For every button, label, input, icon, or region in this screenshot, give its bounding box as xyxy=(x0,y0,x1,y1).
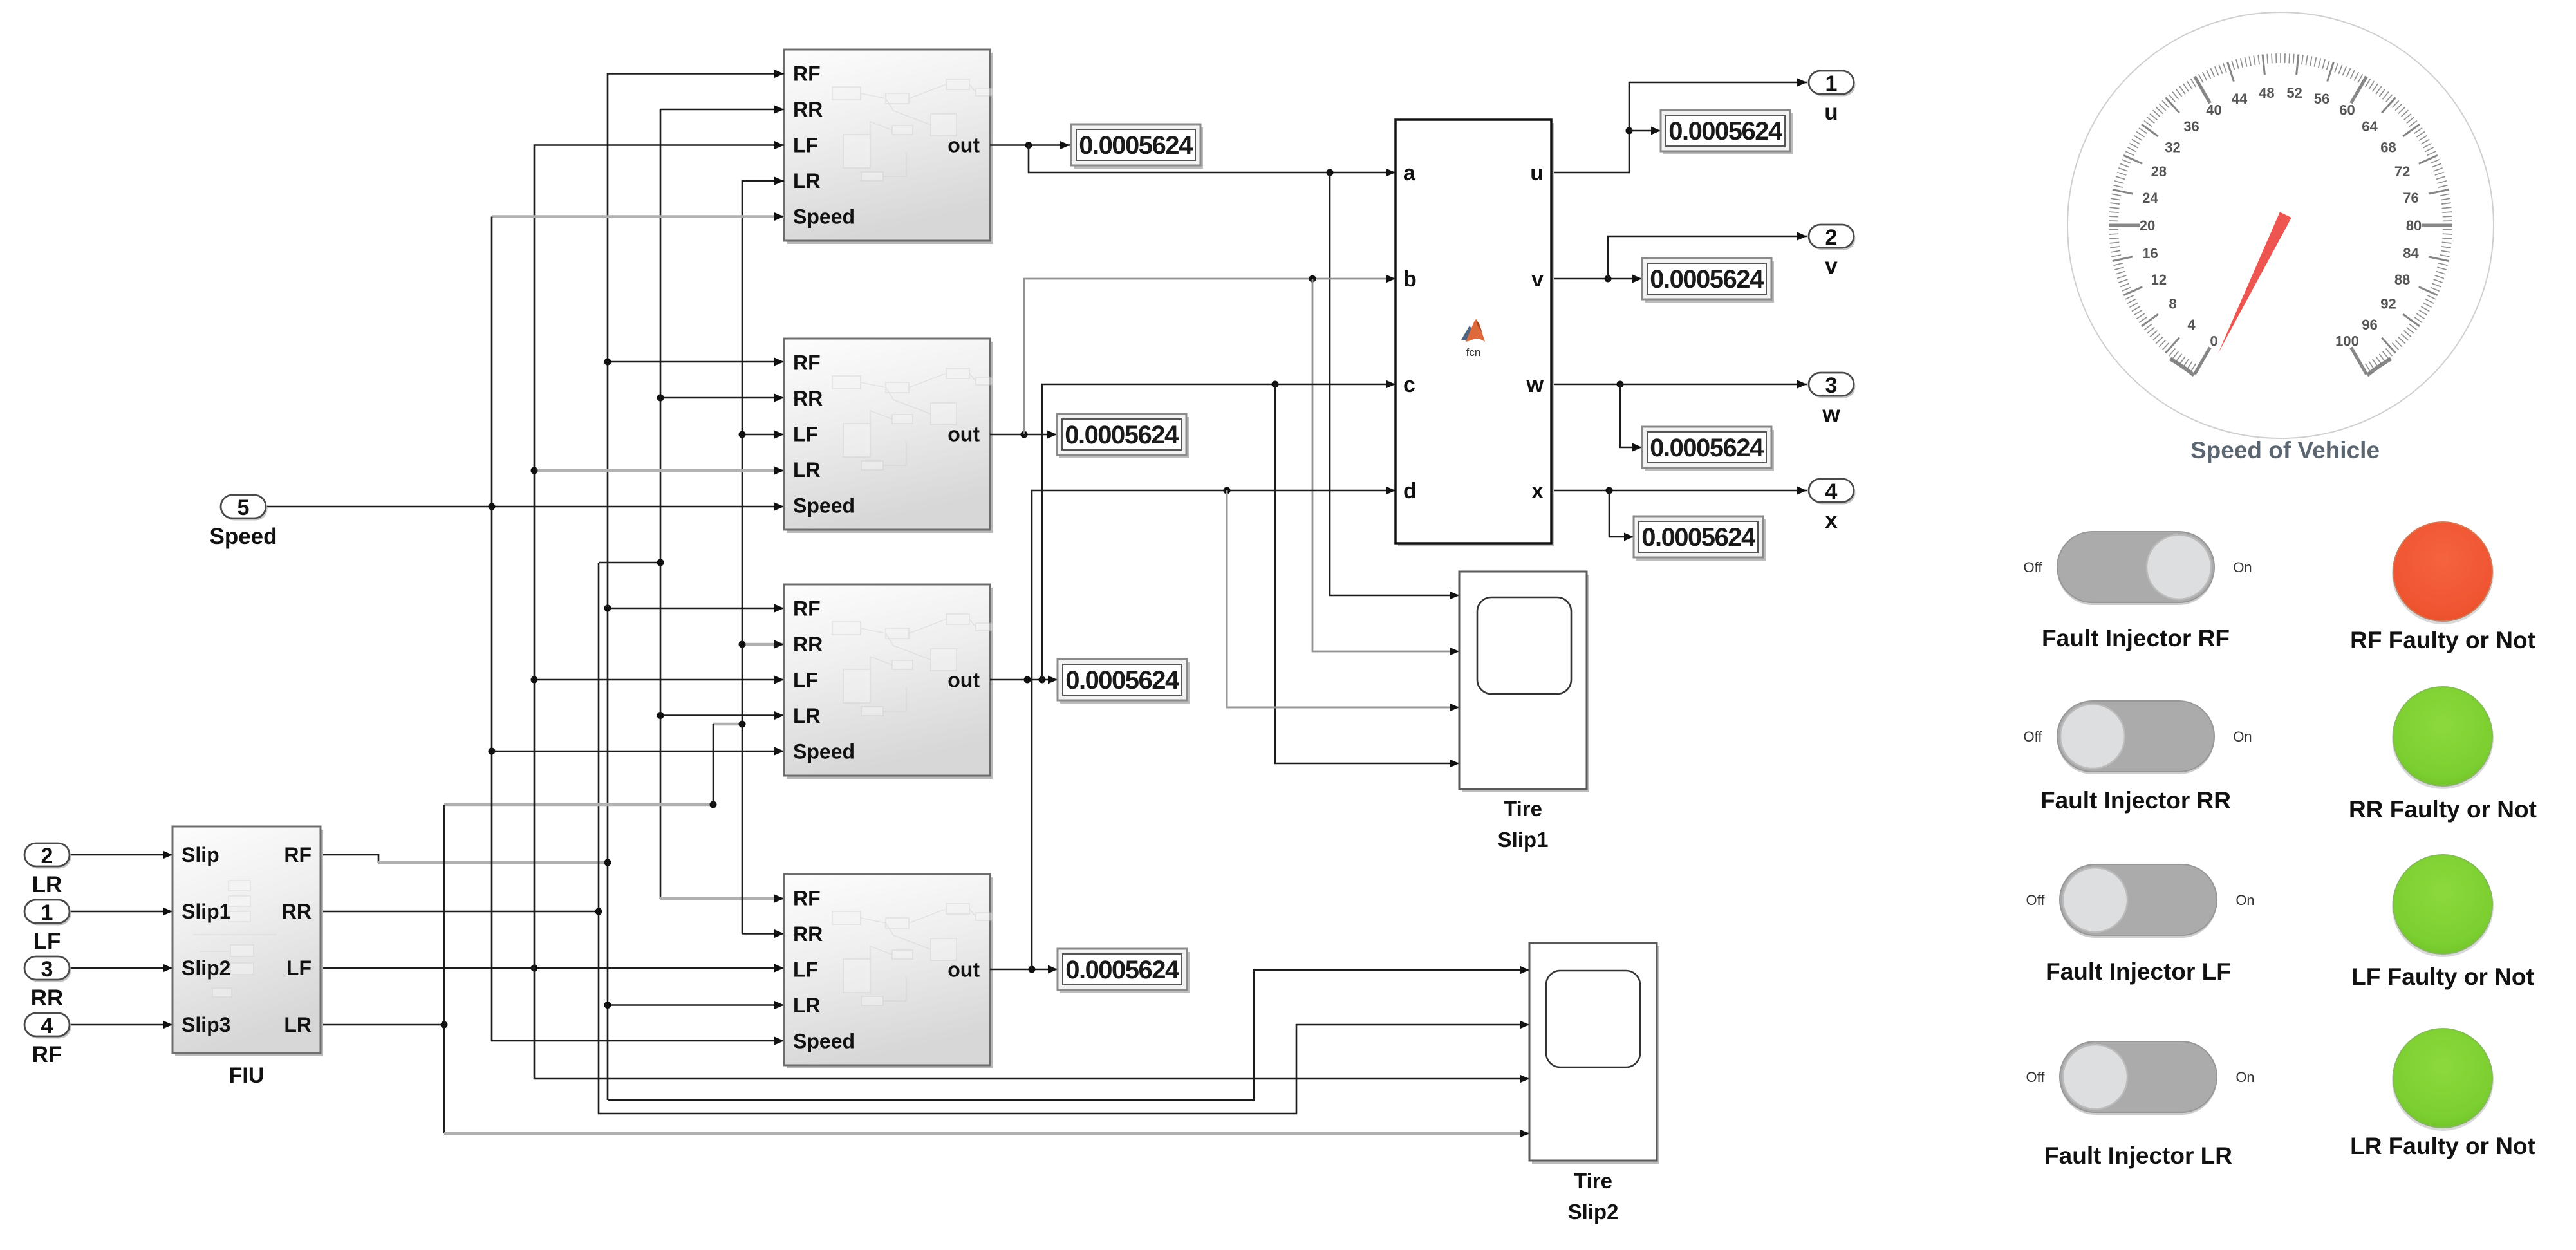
svg-text:4: 4 xyxy=(1825,480,1838,504)
svg-text:On: On xyxy=(2235,1069,2254,1085)
svg-text:x: x xyxy=(1531,479,1544,503)
svg-text:On: On xyxy=(2233,559,2252,575)
svg-text:0.0005624: 0.0005624 xyxy=(1065,421,1179,449)
wire branch to B3.RF xyxy=(604,604,785,613)
wire Speed port5 to B2.Speed xyxy=(266,503,784,511)
wire FIU LF output to B4.LF xyxy=(321,964,784,973)
wire a branch to scope1 in1 xyxy=(1330,173,1459,600)
wire gray run to scope2 in4 xyxy=(444,1130,1529,1138)
wire branch to B3.RR xyxy=(739,640,785,649)
svg-text:Speed: Speed xyxy=(793,740,855,763)
inport 2 LR xyxy=(24,843,71,897)
wire bus vertical x1026 to B1.RR xyxy=(660,106,784,899)
svg-text:LR: LR xyxy=(793,458,821,481)
svg-text:Off: Off xyxy=(2024,559,2043,575)
svg-text:fcn: fcn xyxy=(1466,346,1481,359)
svg-text:w: w xyxy=(1822,402,1840,427)
wire fcn x to outport 4 xyxy=(1551,487,1807,495)
wire RF bus vertical x944 to B1.RF xyxy=(608,70,784,1100)
svg-text:RF: RF xyxy=(284,843,312,866)
svg-text:Slip: Slip xyxy=(182,843,219,866)
scope Tire Slip2 xyxy=(1529,943,1659,1224)
svg-text:Tire: Tire xyxy=(1504,797,1542,821)
wire FIU LR output xyxy=(321,1021,448,1029)
wire fcn v to display xyxy=(1551,275,1642,283)
wire fcn u to outport 1 xyxy=(1551,79,1807,173)
wire B2.out to Display2 xyxy=(990,431,1057,439)
svg-text:Speed of Vehicle: Speed of Vehicle xyxy=(2190,437,2380,463)
svg-text:12: 12 xyxy=(2151,272,2167,288)
svg-text:Tire: Tire xyxy=(1574,1169,1612,1193)
svg-text:Fault Injector LR: Fault Injector LR xyxy=(2044,1143,2232,1169)
gauge dial Speed of Vehicle xyxy=(2067,12,2494,438)
display Display x xyxy=(1634,516,1766,561)
svg-text:RF Faulty or Not: RF Faulty or Not xyxy=(2350,627,2535,653)
svg-text:On: On xyxy=(2235,892,2254,908)
wire b branch to scope1 in2 xyxy=(1312,279,1459,656)
svg-text:0.0005624: 0.0005624 xyxy=(1641,523,1756,552)
svg-text:LF: LF xyxy=(793,423,818,446)
svg-text:4: 4 xyxy=(2187,317,2196,333)
svg-text:RF: RF xyxy=(793,62,821,86)
svg-text:Slip3: Slip3 xyxy=(182,1013,230,1036)
svg-text:On: On xyxy=(2233,729,2252,745)
outport 1 u xyxy=(1809,71,1856,125)
wire FIU RR output xyxy=(321,908,602,915)
svg-text:RR: RR xyxy=(282,900,312,923)
subsystem Tire slip estimator LF xyxy=(784,584,993,779)
svg-text:Fault Injector RR: Fault Injector RR xyxy=(2040,787,2231,814)
svg-text:68: 68 xyxy=(2380,139,2396,155)
svg-text:v: v xyxy=(1531,267,1544,292)
svg-text:1: 1 xyxy=(41,900,53,925)
svg-text:0.0005624: 0.0005624 xyxy=(1065,956,1180,984)
svg-text:Slip1: Slip1 xyxy=(1498,828,1549,852)
wire bus vertical x830 to B1.LF xyxy=(534,141,784,1079)
svg-text:out: out xyxy=(947,669,980,692)
svg-text:u: u xyxy=(1824,100,1838,125)
svg-text:8: 8 xyxy=(2169,296,2176,312)
wire branch to B4.LR xyxy=(604,1001,785,1009)
svg-text:v: v xyxy=(1825,254,1838,279)
svg-text:Speed: Speed xyxy=(793,494,855,518)
wire B3.out to fcn c xyxy=(1042,380,1395,680)
inport 3 RR xyxy=(24,956,71,1011)
svg-text:LR: LR xyxy=(793,169,821,192)
display Display2 0.0005624 xyxy=(1057,414,1189,458)
svg-text:b: b xyxy=(1403,267,1417,292)
display Display w xyxy=(1642,427,1774,471)
svg-text:0.0005624: 0.0005624 xyxy=(1079,131,1193,160)
wire gray run y1250 xyxy=(444,801,717,808)
switch Fault Injector RF xyxy=(2024,532,2252,651)
svg-text:Speed: Speed xyxy=(209,524,277,549)
svg-text:a: a xyxy=(1403,161,1416,185)
wire jog x930 to x1026 xyxy=(599,559,664,566)
svg-text:3: 3 xyxy=(1825,373,1838,398)
wire Speed bus vertical x764 to B4.Speed xyxy=(492,217,784,1045)
switch Fault Injector RR xyxy=(2024,701,2252,814)
lamp RF Faulty or Not xyxy=(2350,522,2535,653)
display Display u xyxy=(1661,110,1793,154)
lamp LR Faulty or Not xyxy=(2350,1029,2535,1159)
wire c branch to scope1 in4 xyxy=(1275,384,1459,768)
svg-text:28: 28 xyxy=(2151,163,2167,180)
wire bus vertical x1153 to B1.LR xyxy=(742,177,784,934)
svg-text:LR Faulty or Not: LR Faulty or Not xyxy=(2350,1133,2535,1159)
wire corner to B4.RF xyxy=(660,895,784,903)
wire B3.out to Display3 xyxy=(990,676,1058,684)
inport 5 Speed xyxy=(209,495,277,549)
svg-text:out: out xyxy=(947,423,980,446)
wire branch to B2.LF xyxy=(739,431,785,439)
svg-text:Off: Off xyxy=(2026,1069,2046,1085)
svg-text:5: 5 xyxy=(238,496,250,520)
wire branch to B2.RR xyxy=(657,394,785,402)
subsystem Tire slip estimator LR xyxy=(784,874,993,1068)
svg-text:24: 24 xyxy=(2142,190,2158,206)
svg-text:100: 100 xyxy=(2335,333,2359,349)
svg-text:92: 92 xyxy=(2380,296,2396,312)
svg-text:Fault Injector LF: Fault Injector LF xyxy=(2046,958,2231,985)
svg-text:84: 84 xyxy=(2403,245,2419,261)
svg-text:RR: RR xyxy=(793,387,823,410)
svg-text:LF: LF xyxy=(286,956,312,980)
svg-text:LF Faulty or Not: LF Faulty or Not xyxy=(2351,964,2534,990)
svg-text:out: out xyxy=(947,134,980,157)
svg-text:Off: Off xyxy=(2026,892,2046,908)
outport 4 x xyxy=(1809,479,1856,533)
svg-text:88: 88 xyxy=(2394,272,2410,288)
wire branch to B3.LR xyxy=(657,711,785,720)
wire v branch to outport 2 xyxy=(1608,232,1807,279)
svg-text:16: 16 xyxy=(2142,245,2158,261)
wire bottom run to scope2 in1 xyxy=(608,966,1529,1101)
wire u branch to display xyxy=(1629,127,1661,135)
svg-text:LF: LF xyxy=(793,134,818,157)
svg-text:Slip2: Slip2 xyxy=(182,956,230,980)
svg-text:LR: LR xyxy=(793,994,821,1017)
wire port3 to FIU Slip2 xyxy=(68,964,173,973)
svg-text:d: d xyxy=(1403,479,1417,503)
subsystem Tire slip estimator RF xyxy=(784,50,993,244)
svg-text:48: 48 xyxy=(2259,85,2274,101)
svg-text:w: w xyxy=(1526,373,1544,397)
svg-text:72: 72 xyxy=(2394,163,2410,180)
svg-text:44: 44 xyxy=(2232,91,2248,107)
svg-text:4: 4 xyxy=(41,1014,53,1038)
svg-text:RF: RF xyxy=(793,351,821,375)
svg-text:RF: RF xyxy=(793,887,821,910)
switch Fault Injector LF xyxy=(2026,864,2255,985)
wire corner to B4.RR xyxy=(742,929,784,938)
svg-text:RR Faulty or Not: RR Faulty or Not xyxy=(2349,796,2537,823)
subsystem Tire slip estimator RR xyxy=(784,339,993,533)
wire Speed branch to B1.Speed xyxy=(492,212,784,221)
svg-text:1: 1 xyxy=(1825,71,1838,96)
svg-text:LR: LR xyxy=(793,704,821,727)
svg-text:64: 64 xyxy=(2362,118,2378,135)
svg-text:LF: LF xyxy=(793,958,818,982)
svg-text:Slip1: Slip1 xyxy=(182,900,230,923)
gauge needle xyxy=(2218,212,2291,353)
svg-text:2: 2 xyxy=(1825,225,1838,250)
svg-text:60: 60 xyxy=(2339,102,2355,118)
svg-text:Speed: Speed xyxy=(793,1030,855,1053)
wire bus vertical x930 to scope2 in2 xyxy=(599,563,1529,1114)
wire vertical x1108 xyxy=(713,724,714,805)
wire d branch to scope1 in3 xyxy=(1227,490,1459,712)
svg-text:LF: LF xyxy=(793,669,818,692)
wire B1.out to Display1 xyxy=(990,141,1070,149)
gauge label xyxy=(2190,437,2380,463)
svg-text:RR: RR xyxy=(31,985,64,1011)
wire Speed branch to B3.Speed xyxy=(489,747,785,756)
svg-text:0.0005624: 0.0005624 xyxy=(1650,434,1764,462)
svg-text:RF: RF xyxy=(32,1042,62,1067)
svg-text:0.0005624: 0.0005624 xyxy=(1668,117,1783,145)
svg-text:76: 76 xyxy=(2403,190,2418,206)
svg-text:RR: RR xyxy=(793,633,823,656)
wire jog x1108 to x1153 xyxy=(713,721,746,728)
svg-text:52: 52 xyxy=(2286,85,2302,101)
svg-text:RR: RR xyxy=(793,98,823,121)
display Display v xyxy=(1642,258,1774,303)
lamp RR Faulty or Not xyxy=(2349,687,2537,823)
svg-text:96: 96 xyxy=(2362,317,2377,333)
svg-text:0: 0 xyxy=(2210,333,2217,349)
svg-text:0.0005624: 0.0005624 xyxy=(1650,265,1764,294)
subsystem FIU xyxy=(173,826,323,1088)
display Display3 0.0005624 xyxy=(1058,659,1190,704)
wire B4.out to fcn d xyxy=(1032,487,1395,970)
wire port1 to FIU Slip1 xyxy=(68,908,173,916)
wire LR bus vertical x690 xyxy=(443,805,445,1133)
svg-text:out: out xyxy=(947,958,980,982)
svg-text:40: 40 xyxy=(2206,102,2221,118)
svg-text:2: 2 xyxy=(41,844,53,868)
wire port2 to FIU Slip xyxy=(68,851,173,859)
display Display4 0.0005624 xyxy=(1058,949,1190,993)
wire FIU RF gray run xyxy=(378,859,611,866)
wire branch to B2.RF xyxy=(604,358,785,366)
wire x branch to display xyxy=(1609,490,1634,541)
inport 1 LF xyxy=(24,900,71,954)
svg-text:RF: RF xyxy=(793,597,821,620)
display Display1 0.0005624 xyxy=(1071,124,1203,169)
wire port4 to FIU Slip3 xyxy=(68,1021,173,1029)
svg-text:Off: Off xyxy=(2024,729,2043,745)
wire B1.out to fcn a xyxy=(1029,145,1395,177)
svg-text:Speed: Speed xyxy=(793,205,855,229)
wire bottom run to scope2 in3 xyxy=(534,1075,1529,1083)
svg-text:FIU: FIU xyxy=(229,1063,265,1088)
wire fcn w to outport 3 xyxy=(1551,380,1807,389)
switch Fault Injector LR xyxy=(2026,1041,2255,1169)
svg-text:Slip2: Slip2 xyxy=(1568,1200,1619,1224)
svg-text:0.0005624: 0.0005624 xyxy=(1065,666,1180,695)
outport 2 v xyxy=(1809,225,1856,279)
wire w branch to display xyxy=(1620,384,1642,452)
svg-text:3: 3 xyxy=(41,957,53,982)
inport 4 RF xyxy=(24,1013,71,1067)
svg-text:x: x xyxy=(1825,508,1838,533)
svg-text:LF: LF xyxy=(33,929,61,954)
scope Tire Slip1 xyxy=(1459,572,1589,852)
svg-text:32: 32 xyxy=(2165,139,2180,155)
svg-text:56: 56 xyxy=(2314,91,2329,107)
wire FIU RF output xyxy=(321,855,378,863)
MATLAB Function block fcn xyxy=(1395,120,1554,546)
svg-text:RR: RR xyxy=(793,922,823,946)
svg-text:80: 80 xyxy=(2406,218,2422,234)
lamp LF Faulty or Not xyxy=(2351,855,2534,990)
wire branch to B2.LR xyxy=(531,467,785,475)
svg-text:u: u xyxy=(1530,161,1544,185)
svg-text:LR: LR xyxy=(284,1013,312,1036)
svg-text:Fault Injector RF: Fault Injector RF xyxy=(2042,625,2230,651)
svg-text:c: c xyxy=(1403,373,1415,397)
wire branch to B3.LF xyxy=(531,676,785,684)
wire B4.out to Display4 xyxy=(990,965,1058,974)
svg-text:36: 36 xyxy=(2183,118,2199,135)
outport 3 w xyxy=(1809,373,1856,427)
wire B2.out to fcn b xyxy=(1024,275,1395,435)
svg-text:20: 20 xyxy=(2140,218,2155,234)
svg-text:LR: LR xyxy=(32,872,62,897)
